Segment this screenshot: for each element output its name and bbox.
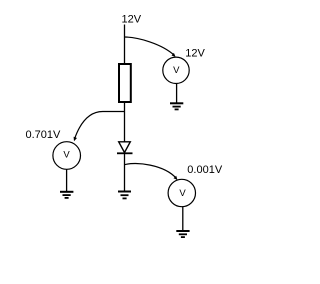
diode D1 <box>117 142 133 154</box>
voltmeter U3 <box>168 179 195 206</box>
arrowhead into voltmeter U3 <box>174 176 178 180</box>
wire from resistor bottom to diode <box>124 102 126 142</box>
wire curve from node to voltmeter U2 <box>74 112 124 140</box>
wire from voltmeter U2 to ground <box>66 169 68 192</box>
ground (main branch) <box>118 192 131 199</box>
voltmeter U1 <box>163 57 189 83</box>
svg-text:0.701V: 0.701V <box>26 129 62 141</box>
resistor R1 <box>119 64 131 102</box>
svg-text:V: V <box>63 149 70 160</box>
arrowhead into voltmeter U2 <box>74 137 77 141</box>
svg-text:0.001V: 0.001V <box>187 164 223 176</box>
svg-text:V: V <box>179 188 186 199</box>
ground (U2) <box>60 192 73 198</box>
wire from 12V node to resistor top <box>124 25 126 65</box>
arrowhead into voltmeter U1 <box>172 53 176 57</box>
wire from voltmeter U3 to ground <box>182 207 184 231</box>
ground (U3) <box>176 231 189 237</box>
wire from voltmeter U1 to ground <box>176 84 178 104</box>
svg-text:12V: 12V <box>185 48 205 60</box>
svg-text:12V: 12V <box>122 14 142 26</box>
voltmeter U2 <box>53 142 81 170</box>
ground (U1) <box>170 103 183 109</box>
wire curve from 12V node to voltmeter U1 <box>125 37 175 55</box>
svg-text:V: V <box>173 65 180 76</box>
wire curve from node to voltmeter U3 <box>125 164 177 179</box>
wire from diode cathode to ground <box>124 153 126 191</box>
